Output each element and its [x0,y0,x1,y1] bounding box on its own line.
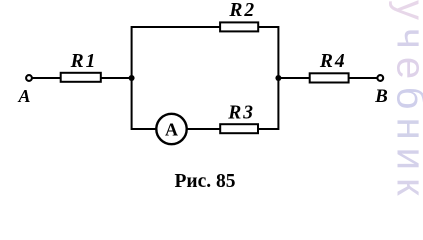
svg-text:R4: R4 [319,51,347,72]
svg-text:R3: R3 [227,103,255,124]
svg-text:B: B [374,86,388,107]
svg-text:учебник: учебник [389,0,423,196]
svg-text:R2: R2 [228,0,256,21]
svg-text:Рис. 85: Рис. 85 [174,171,235,192]
svg-text:R1: R1 [70,51,98,72]
svg-text:A: A [165,120,178,140]
svg-text:A: A [17,86,30,106]
